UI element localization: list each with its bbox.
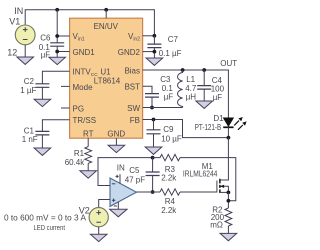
label C9 value: [161, 134, 182, 143]
ground GND1: [49, 57, 66, 64]
svg-text:µF: µF: [213, 93, 223, 102]
svg-text:0.1 µF: 0.1 µF: [159, 49, 182, 58]
label 12: [7, 48, 17, 58]
capacitor C3: [145, 94, 159, 98]
svg-text:TR/SS: TR/SS: [73, 116, 97, 125]
LED D1 light arrows: [234, 117, 246, 130]
wire Mode stub: [61, 85, 70, 87]
wire Bias OUT rail: [143, 70, 229, 118]
pin TR/SS: [73, 116, 97, 125]
svg-text:0.1: 0.1: [162, 84, 174, 93]
svg-text:µH: µH: [186, 93, 197, 102]
wire C4 to ground: [203, 89, 205, 101]
wire D1 cathode to node: [227, 127, 229, 137]
label R4 value: [161, 206, 177, 215]
svg-text:EN/UV: EN/UV: [94, 22, 119, 31]
wire Vin2 to C7: [153, 36, 155, 44]
pin BST: [124, 83, 140, 92]
resistor R3: [153, 154, 180, 160]
junction dot sense node: [227, 199, 231, 203]
wire op-amp inverting feedback: [98, 158, 153, 186]
capacitor C4: [197, 86, 211, 90]
pin Mode: [73, 83, 94, 92]
wire SW pin: [143, 107, 183, 109]
label C2: [24, 77, 35, 86]
pin GND1: [73, 48, 96, 57]
wire C7 to GND2: [143, 48, 155, 58]
ground C9: [145, 147, 162, 154]
label C2 value: [20, 86, 36, 95]
pin FB: [130, 116, 140, 125]
pin GND2: [118, 48, 141, 57]
svg-text:U1: U1: [100, 68, 111, 77]
ground op-amp V-: [110, 209, 127, 217]
wire C9 to ground: [153, 134, 155, 147]
label control range line 2: [34, 223, 66, 232]
svg-text:GND2: GND2: [118, 48, 141, 57]
label C9: [163, 125, 174, 134]
junction dot EN/UV: [104, 8, 108, 12]
svg-text:V1: V1: [9, 16, 20, 26]
wire V2 to ground: [98, 227, 100, 234]
svg-text:1 nF: 1 nF: [22, 135, 38, 144]
svg-text:SW: SW: [127, 104, 140, 113]
svg-text:LED current: LED current: [34, 223, 66, 232]
label C7 value: [159, 49, 182, 58]
svg-text:L1: L1: [186, 75, 195, 84]
capacitor C6: [50, 43, 64, 46]
node OUT label: [220, 59, 237, 68]
resistor R4: [160, 189, 180, 195]
wire EN/UV stub: [105, 10, 107, 18]
ground C2: [34, 99, 51, 106]
label C4 value: [211, 85, 225, 103]
pin INTVcc: [73, 67, 99, 78]
svg-text:4.7: 4.7: [185, 84, 197, 93]
wire V2 to op-amp plus input: [99, 200, 110, 208]
svg-text:C7: C7: [168, 35, 179, 44]
svg-text:2.2k: 2.2k: [161, 173, 177, 182]
ground R1: [80, 171, 97, 178]
transistor M1 channel segments: [219, 179, 221, 193]
capacitor C1: [35, 131, 49, 135]
svg-text:IN: IN: [14, 6, 23, 16]
capacitor C7: [147, 44, 161, 48]
op-amp V+ plus sign: [116, 175, 119, 178]
svg-text:GND: GND: [107, 130, 125, 139]
LED D1: [223, 118, 233, 128]
svg-text:C1: C1: [24, 126, 35, 135]
ground GND pin: [108, 145, 125, 152]
transistor M1 source lead: [220, 191, 229, 193]
op-amp V- supply stub: [117, 202, 119, 209]
op-amp V- minus sign: [114, 205, 117, 207]
ground V2: [90, 234, 107, 241]
junction dot FB-C9: [152, 118, 156, 122]
pin PG: [73, 104, 85, 113]
label C3 value: [162, 84, 174, 102]
junction dot D1 cathode / drain: [227, 136, 231, 140]
label C4: [212, 76, 223, 85]
svg-text:µF: µF: [164, 93, 174, 102]
label R2 value: [210, 213, 224, 230]
capacitor C9: [147, 130, 161, 134]
op-amp V+ supply stub: [119, 174, 121, 183]
wire C4 top: [203, 70, 205, 85]
label C6: [40, 34, 51, 43]
label C5: [129, 166, 140, 175]
label C7: [168, 35, 179, 44]
op-amp U2 body: [110, 178, 136, 206]
wire PG stub: [61, 107, 70, 109]
junction dot Vin2: [153, 34, 157, 38]
wire INTVcc to C2: [42, 71, 69, 83]
label R4: [165, 197, 176, 206]
label R2: [212, 206, 223, 215]
svg-text:µF: µF: [41, 51, 51, 60]
pin Vin1: [73, 32, 85, 43]
wire C5 top: [152, 158, 154, 172]
label M1: [202, 162, 214, 171]
junction dot C5 output node: [151, 190, 155, 194]
node IN label: [14, 6, 23, 16]
svg-text:PT-121-B: PT-121-B: [195, 123, 222, 132]
wire C2 to ground: [41, 87, 43, 99]
wire C1 to ground: [41, 135, 43, 148]
svg-text:0 to 600 mV = 0 to 3 A: 0 to 600 mV = 0 to 3 A: [4, 213, 87, 222]
svg-text:C5: C5: [129, 166, 140, 175]
capacitor C2: [35, 84, 49, 88]
junction dot GND1: [55, 50, 59, 54]
ground C4: [196, 101, 213, 108]
wire FB to D1 cathode node: [143, 120, 229, 138]
wire branch to Vin1 and C6: [57, 10, 69, 43]
label C6 value: [39, 43, 51, 60]
label C3: [160, 75, 171, 84]
svg-text:1 µF: 1 µF: [20, 86, 36, 95]
inductor L1: [178, 70, 183, 108]
svg-text:60.4k: 60.4k: [65, 158, 86, 167]
label V2: [79, 205, 90, 215]
op-amp input plus sign: [112, 199, 115, 202]
junction dot GND2: [153, 50, 157, 54]
IC U1 LT8614 body: [70, 18, 143, 138]
ground C1: [34, 148, 51, 155]
wire C6 to GND1: [57, 46, 69, 57]
wire C9 top: [153, 120, 155, 130]
transistor M1 body lead and arrow: [220, 185, 229, 193]
pin SW: [127, 104, 140, 113]
junction dot M1 source: [227, 191, 231, 195]
pin Bias: [124, 67, 140, 76]
junction dot C6 branch top: [55, 8, 59, 12]
wire R3 to source sense node: [180, 158, 236, 201]
label R1: [74, 149, 85, 158]
svg-text:C2: C2: [24, 77, 35, 86]
transistor M1 drain lead: [220, 138, 229, 180]
ground R2: [220, 233, 237, 240]
svg-text:10 µF: 10 µF: [161, 134, 182, 143]
wire Vin2 pin: [143, 35, 155, 37]
svg-text:PG: PG: [73, 104, 85, 113]
wire source to sense node: [227, 192, 229, 208]
junction dot C5-R3 node: [151, 156, 155, 160]
wire V1 to ground: [24, 45, 26, 57]
wire C5 bottom: [152, 176, 154, 193]
ground V1: [17, 57, 34, 64]
label L1: [186, 75, 195, 84]
pin GND: [107, 130, 125, 139]
wire GND pin stub: [115, 138, 117, 145]
pin Vin2: [128, 32, 140, 43]
svg-text:mΩ: mΩ: [210, 220, 223, 229]
label V1: [9, 16, 20, 26]
label R3: [165, 165, 176, 174]
capacitor C5: [146, 172, 160, 176]
svg-text:2.2k: 2.2k: [161, 206, 177, 215]
label C1: [24, 126, 35, 135]
wire RT stub: [87, 138, 89, 146]
wire BST to C3: [143, 86, 152, 93]
junction dot L1 top: [181, 68, 185, 72]
svg-text:C3: C3: [160, 75, 171, 84]
junction dot C4 top: [202, 68, 206, 72]
label D1 part: [195, 123, 222, 132]
wire R4 to gate: [180, 191, 217, 193]
svg-text:RT: RT: [83, 130, 94, 139]
resistor R1: [85, 147, 92, 164]
svg-text:C9: C9: [163, 125, 174, 134]
svg-text:IRLML6244: IRLML6244: [183, 170, 218, 179]
label R1 value: [65, 158, 86, 167]
label L1 value: [185, 84, 197, 102]
svg-text:GND1: GND1: [73, 48, 96, 57]
wire R2 to ground: [227, 226, 229, 233]
wire TR/SS to C1: [42, 120, 69, 132]
node IN (op-amp supply) label: [117, 164, 125, 173]
wire R1 to ground: [87, 163, 89, 170]
source V2: [89, 208, 108, 227]
svg-text:D1: D1: [213, 114, 224, 123]
label R3 value: [161, 173, 177, 182]
label C1 value: [22, 135, 38, 144]
svg-text:12: 12: [7, 48, 17, 58]
wire C3 to SW: [151, 97, 153, 107]
ground GND2: [146, 58, 163, 65]
junction dot Vin1: [55, 34, 59, 38]
svg-text:OUT: OUT: [220, 59, 237, 68]
junction dot C3-SW: [150, 106, 154, 110]
source V1: [15, 25, 35, 45]
svg-text:FB: FB: [130, 116, 140, 125]
transistor M1 gate bar: [216, 181, 218, 193]
wire top rail IN to Vin2 corner: [25, 10, 154, 36]
svg-text:LT8614: LT8614: [94, 77, 121, 86]
svg-text:47 pF: 47 pF: [125, 176, 146, 185]
svg-text:C6: C6: [40, 34, 51, 43]
svg-text:Mode: Mode: [73, 83, 94, 92]
resistor R2: [225, 208, 232, 226]
svg-text:IN: IN: [117, 164, 125, 173]
label control range line 1: [4, 213, 87, 222]
pin RT: [83, 130, 94, 139]
wire op-amp output: [136, 191, 160, 193]
svg-text:BST: BST: [124, 83, 140, 92]
svg-text:Bias: Bias: [124, 67, 140, 76]
label M1 part: [183, 170, 218, 179]
label C5 value: [125, 176, 146, 185]
label D1: [213, 114, 224, 123]
op-amp input minus sign: [112, 183, 115, 185]
